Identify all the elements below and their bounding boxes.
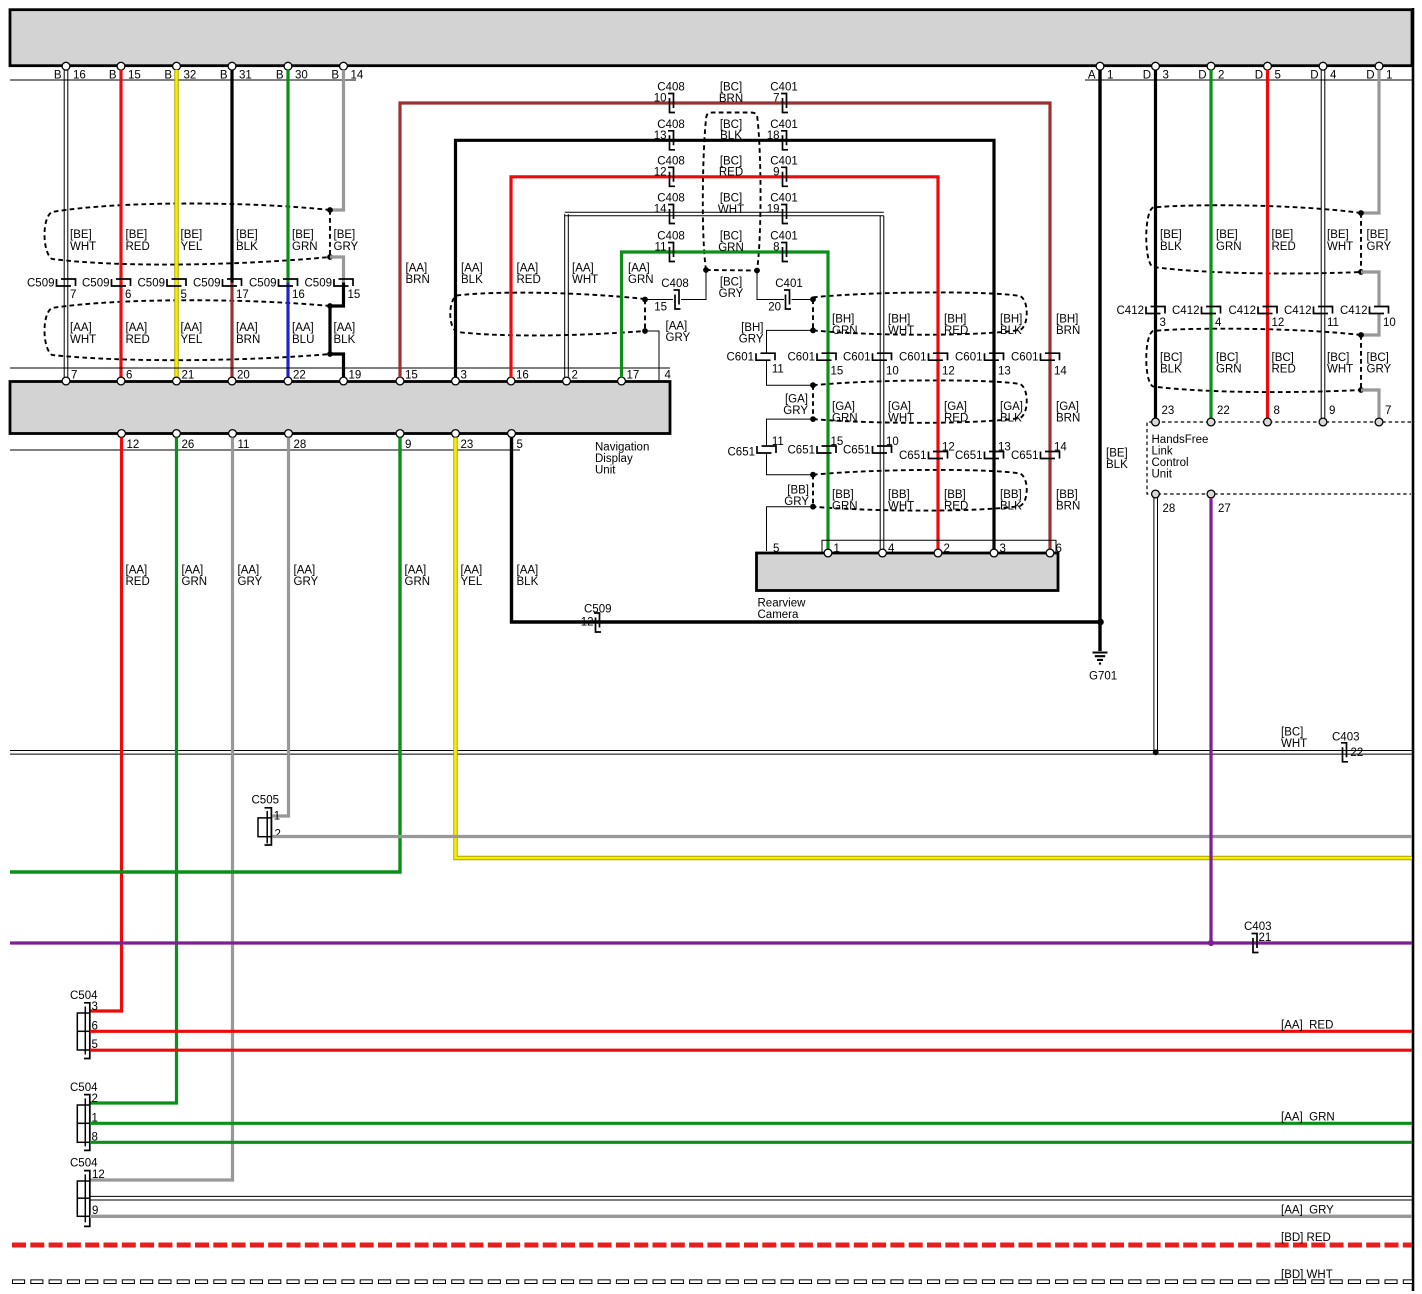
svg-text:2: 2 <box>275 828 281 840</box>
svg-text:WHT: WHT <box>888 325 914 337</box>
svg-text:[AA]: [AA] <box>126 322 148 334</box>
junction at G701 branch <box>1097 619 1104 626</box>
svg-text:[GA]: [GA] <box>832 401 855 413</box>
connector C401 pin 18 <box>781 131 788 150</box>
svg-text:20: 20 <box>237 369 250 381</box>
wire [AA] RED (C504 6 to right edge) <box>90 1030 1412 1033</box>
unit: HandsFree Link Control Unit (dashed) <box>1147 422 1411 494</box>
svg-text:[AA]: [AA] <box>236 322 258 334</box>
svg-text:5: 5 <box>1275 69 1281 81</box>
svg-text:[BD] RED: [BD] RED <box>1281 1232 1331 1244</box>
svg-text:YEL: YEL <box>181 334 203 346</box>
connector C401 pin 7 <box>781 94 788 113</box>
junction: right shield dot 1 <box>1358 210 1364 216</box>
wire [BD] WHT (hollow dashed run) <box>12 1279 1412 1284</box>
shield drain dashed (E-F) <box>812 475 814 507</box>
unit: head unit bar (top) <box>10 10 1412 66</box>
svg-text:3: 3 <box>1000 543 1006 555</box>
svg-text:BLK: BLK <box>461 274 483 286</box>
junction: right shield dot 3 <box>1358 332 1364 338</box>
svg-text:RED: RED <box>944 413 968 425</box>
svg-text:[AA]: [AA] <box>406 263 428 275</box>
svg-text:12: 12 <box>581 617 594 629</box>
wire [BE]/[AA] RED (B15 to NDU 6) <box>119 70 122 380</box>
svg-text:C651: C651 <box>843 445 871 457</box>
svg-text:GRY: GRY <box>334 241 359 253</box>
connector C601 pin 10 <box>873 353 892 360</box>
svg-text:12: 12 <box>942 365 955 377</box>
svg-text:[BC]: [BC] <box>720 276 742 288</box>
connector C408 pin 12 <box>668 167 675 186</box>
wire [AA]/[BC]/[BH] GRN (NDU 17 to camera 1) <box>622 252 829 549</box>
svg-text:C509: C509 <box>138 278 166 290</box>
connector strip A/D (right, under bar) <box>1085 79 1412 81</box>
svg-text:3: 3 <box>92 1001 98 1013</box>
wire shield drain (C401 20 to dot A) <box>792 299 814 301</box>
svg-text:C504: C504 <box>70 1158 98 1170</box>
wire [BC] GRY (C412 10 to shield dot 3) <box>1361 314 1379 336</box>
svg-text:19: 19 <box>349 369 362 381</box>
svg-text:BLK: BLK <box>517 576 539 588</box>
svg-text:B: B <box>331 69 339 81</box>
connector C651 pin 11 <box>757 446 776 453</box>
svg-text:GRN: GRN <box>832 413 858 425</box>
wire [AA]/[BE] BLK (NDU 5 to ground) <box>512 438 1101 623</box>
svg-text:C651: C651 <box>899 450 927 462</box>
svg-text:11: 11 <box>772 364 784 376</box>
shield drain dashed segment (left lower) <box>329 306 331 354</box>
svg-text:15: 15 <box>405 369 418 381</box>
svg-text:BRN: BRN <box>406 274 430 286</box>
junction on WHT run <box>1153 749 1159 755</box>
shield drain dashed (right upper) <box>1360 213 1362 272</box>
svg-text:31: 31 <box>239 69 252 81</box>
svg-text:Navigation: Navigation <box>595 442 649 454</box>
unit: Rearview Camera <box>757 553 1059 591</box>
svg-text:GRN: GRN <box>292 241 318 253</box>
svg-text:[BE]: [BE] <box>1160 229 1182 241</box>
svg-text:BRN: BRN <box>1056 500 1080 512</box>
wire [BC] WHT (horizontal run) <box>10 750 1412 752</box>
svg-text:13: 13 <box>998 365 1011 377</box>
shield oval [BH] group <box>813 292 1027 334</box>
shield capsule [BC] group (between C408 and C401) <box>703 113 761 271</box>
svg-text:17: 17 <box>627 369 640 381</box>
wire shield drain (capsule to C401 20) <box>757 271 784 300</box>
svg-text:20: 20 <box>768 302 781 314</box>
svg-text:13: 13 <box>998 441 1011 453</box>
junction dot D <box>810 416 816 422</box>
connector C408 pin 10 <box>668 94 675 113</box>
NDU bottom connector strip <box>10 449 520 451</box>
svg-text:WHT: WHT <box>888 413 914 425</box>
svg-text:[BE]: [BE] <box>181 229 203 241</box>
svg-text:BRN: BRN <box>719 93 743 105</box>
svg-text:15: 15 <box>654 302 667 314</box>
svg-text:6: 6 <box>125 289 131 301</box>
svg-text:B: B <box>276 69 284 81</box>
svg-text:[BH]: [BH] <box>1000 313 1022 325</box>
svg-text:GRN: GRN <box>1216 241 1242 253</box>
connector C401 pin 19 <box>781 205 788 224</box>
svg-text:12: 12 <box>1272 317 1285 329</box>
connector C403 pin 21 <box>1252 934 1259 953</box>
svg-text:GRY: GRY <box>783 405 808 417</box>
svg-text:C505: C505 <box>252 795 280 807</box>
svg-text:[BC]: [BC] <box>1281 727 1303 739</box>
svg-text:16: 16 <box>292 289 305 301</box>
connector C651 pin 15 <box>817 446 836 453</box>
svg-text:15: 15 <box>128 69 141 81</box>
svg-text:16: 16 <box>73 69 86 81</box>
svg-text:[AA]: [AA] <box>292 322 314 334</box>
wire shield drain (C601 11 to dot C) <box>767 360 814 385</box>
svg-text:[BH]: [BH] <box>832 313 854 325</box>
svg-text:[BB]: [BB] <box>888 489 910 501</box>
pins on head unit bar edge <box>62 62 70 70</box>
junction: shield drain top left <box>327 207 333 213</box>
unit: Navigation Display Unit <box>10 382 670 434</box>
svg-text:BLK: BLK <box>334 334 356 346</box>
connector C601 pin 14 <box>1041 353 1060 360</box>
svg-text:[BE]: [BE] <box>236 229 258 241</box>
svg-text:[BH]: [BH] <box>888 313 910 325</box>
svg-text:C601: C601 <box>1011 352 1039 364</box>
connector C601 pin 13 <box>985 353 1004 360</box>
svg-text:11: 11 <box>772 436 784 448</box>
svg-text:A: A <box>1088 69 1096 81</box>
svg-text:Link: Link <box>1152 446 1173 458</box>
svg-text:[BB]: [BB] <box>787 485 809 497</box>
shield oval [BC] group (right) <box>1146 329 1361 392</box>
svg-text:7: 7 <box>70 289 76 301</box>
svg-text:19: 19 <box>767 204 780 216</box>
svg-text:GRN: GRN <box>628 274 654 286</box>
svg-text:2: 2 <box>944 543 950 555</box>
svg-text:15: 15 <box>831 436 844 448</box>
wire [AA] GRN (C504 1 to right edge) <box>90 1122 1412 1125</box>
wire [AA]/[BC]/[BH] BLK (NDU 3 to camera 3) <box>456 140 995 549</box>
svg-text:C509: C509 <box>82 278 110 290</box>
svg-text:C651: C651 <box>955 450 983 462</box>
svg-text:C403: C403 <box>1332 732 1360 744</box>
svg-text:[BC]: [BC] <box>1272 352 1294 364</box>
svg-text:Unit: Unit <box>1152 469 1173 481</box>
wire [AA] GRY (C504 9 to right edge) <box>90 1215 1412 1218</box>
svg-text:Unit: Unit <box>595 465 616 477</box>
svg-text:9: 9 <box>1329 405 1335 417</box>
connector C601 pin 15 <box>817 353 836 360</box>
svg-text:C601: C601 <box>955 352 983 364</box>
shield oval [BB] group <box>813 470 1027 511</box>
svg-text:[BE]: [BE] <box>70 229 92 241</box>
svg-text:C401: C401 <box>775 278 803 290</box>
svg-text:GRY: GRY <box>739 334 764 346</box>
svg-text:Display: Display <box>595 453 633 465</box>
svg-text:RED: RED <box>944 500 968 512</box>
svg-text:C412: C412 <box>1284 305 1312 317</box>
connector C408 pin 11 <box>668 243 675 262</box>
svg-text:C601: C601 <box>843 352 871 364</box>
svg-text:10: 10 <box>886 436 899 448</box>
svg-text:WHT: WHT <box>70 334 96 346</box>
wire [AA] RED (C504 5 to right edge) <box>90 1049 1412 1052</box>
svg-text:2: 2 <box>572 369 578 381</box>
svg-text:WHT: WHT <box>1281 738 1307 750</box>
svg-text:[BE]: [BE] <box>292 229 314 241</box>
wire [BE] GRY (D1 to shield dot) <box>1361 70 1379 213</box>
svg-text:C509: C509 <box>249 278 277 290</box>
svg-text:1: 1 <box>1386 69 1392 81</box>
svg-text:10: 10 <box>886 365 899 377</box>
svg-text:GRY: GRY <box>1367 241 1392 253</box>
svg-text:3: 3 <box>1160 317 1166 329</box>
svg-text:B: B <box>109 69 117 81</box>
junction dot A (BH shield top) <box>810 296 816 302</box>
svg-text:B: B <box>54 69 62 81</box>
svg-text:RED: RED <box>126 576 150 588</box>
svg-text:RED: RED <box>517 274 541 286</box>
connector C651 pin 10 <box>873 446 892 453</box>
svg-text:[AA]: [AA] <box>628 263 650 275</box>
connector C601 pin 12 <box>929 353 948 360</box>
svg-text:GRY: GRY <box>1367 364 1392 376</box>
junction: shield drain left <box>327 254 333 260</box>
svg-text:[BB]: [BB] <box>1056 489 1078 501</box>
svg-text:12: 12 <box>654 166 667 178</box>
wire [BE]/[BC] BLK (D3 to HFL 23) <box>1154 70 1157 418</box>
wire [BE] BLK (A1 to ground) <box>1098 70 1101 651</box>
svg-text:C408: C408 <box>661 278 689 290</box>
svg-text:1: 1 <box>834 543 840 555</box>
svg-text:RED: RED <box>126 334 150 346</box>
wire [AA]/[BC]/[BH] RED (NDU 16 to camera 2) <box>511 177 938 549</box>
svg-text:D: D <box>1366 69 1374 81</box>
wire shield drain (dot to NDU 4) <box>645 331 659 380</box>
shield oval [BE] group (left) <box>45 203 331 264</box>
connector C509 pin 7 <box>57 279 76 286</box>
svg-text:5: 5 <box>517 439 523 451</box>
svg-text:12: 12 <box>92 1169 105 1181</box>
svg-text:9: 9 <box>773 166 779 178</box>
wire shield drain (D to C651 11) <box>767 419 814 446</box>
svg-text:[AA]: [AA] <box>461 565 483 577</box>
svg-text:15: 15 <box>348 289 361 301</box>
svg-text:BLK: BLK <box>1106 459 1128 471</box>
svg-text:[BE]: [BE] <box>1106 448 1128 460</box>
connector C412 pin 4 <box>1202 307 1221 314</box>
svg-text:G701: G701 <box>1089 671 1117 683</box>
svg-text:[AA]: [AA] <box>405 565 427 577</box>
ground G701 <box>1093 653 1108 664</box>
svg-text:BLK: BLK <box>236 241 258 253</box>
wire [AA] BLK shield drain (solid behind dashes) <box>328 306 331 354</box>
svg-text:7: 7 <box>1385 405 1391 417</box>
svg-text:B: B <box>164 69 172 81</box>
svg-text:C403: C403 <box>1244 921 1272 933</box>
junction: [AA] shield dot upper <box>642 297 648 303</box>
svg-text:[BC]: [BC] <box>1160 352 1182 364</box>
wire shield drain (B to C601 11) <box>767 330 814 353</box>
connector C601 pin 11 <box>756 353 775 360</box>
svg-text:[AA]: [AA] <box>182 565 204 577</box>
svg-text:GRY: GRY <box>238 576 263 588</box>
svg-text:RED: RED <box>944 325 968 337</box>
camera connector strip <box>822 540 1056 553</box>
svg-text:GRY: GRY <box>666 332 691 344</box>
wire [AA] GRY (C505 2 to right edge) <box>273 835 1413 838</box>
junction dot F <box>810 504 816 510</box>
svg-text:B: B <box>220 69 228 81</box>
svg-text:[BC]: [BC] <box>1216 352 1238 364</box>
connector C509 pin 5 <box>167 279 186 286</box>
svg-text:BLU: BLU <box>292 334 314 346</box>
svg-text:[AA]: [AA] <box>666 321 688 333</box>
connector C401 pin 8 <box>781 243 788 262</box>
svg-text:1: 1 <box>1107 69 1113 81</box>
connector C401 pin 20 <box>784 290 791 309</box>
svg-text:Rearview: Rearview <box>758 597 807 609</box>
svg-text:C412: C412 <box>1229 305 1257 317</box>
wire white (C504 to right edge) <box>90 1195 1412 1197</box>
wire [AA] GRY (NDU 28 to C505 1) <box>273 438 289 817</box>
connector C509 pin 6 <box>112 279 131 286</box>
svg-text:C509: C509 <box>305 278 333 290</box>
wire [AA] RED (NDU 12 to C504 3) <box>90 438 122 1012</box>
svg-text:[AA] GRY: [AA] GRY <box>1281 1204 1334 1216</box>
svg-text:GRN: GRN <box>1216 364 1242 376</box>
wire [BE]/[BC] WHT (D4 to HFL 9) <box>1320 70 1322 418</box>
junction: capsule right <box>754 268 760 274</box>
wire [AA]/[BC]/[BH] BRN (NDU 15 to camera 6) <box>400 103 1050 549</box>
svg-text:WHT: WHT <box>888 500 914 512</box>
svg-text:10: 10 <box>654 93 667 105</box>
svg-text:3: 3 <box>1163 69 1169 81</box>
svg-text:C651: C651 <box>728 446 756 458</box>
connector strip B (left, under bar) <box>10 79 356 81</box>
svg-text:GRN: GRN <box>405 576 431 588</box>
svg-text:GRY: GRY <box>294 576 319 588</box>
shield drain dashed (A-B) <box>812 299 814 330</box>
svg-text:Camera: Camera <box>758 609 800 621</box>
svg-text:[AA] GRN: [AA] GRN <box>1281 1111 1335 1123</box>
svg-text:14: 14 <box>1054 365 1067 377</box>
svg-text:14: 14 <box>351 69 364 81</box>
svg-text:[GA]: [GA] <box>1000 401 1023 413</box>
svg-text:WHT: WHT <box>1327 364 1353 376</box>
wire [AA] YEL (NDU 23 to right edge) <box>456 438 1413 859</box>
wire [BE] GRY (dot to C509 15) <box>330 257 344 283</box>
wire [AA] BRN (C509 17 to NDU 20) <box>230 283 233 380</box>
svg-text:BRN: BRN <box>1056 325 1080 337</box>
svg-text:[BC]: [BC] <box>1367 352 1389 364</box>
shield oval [AA] group (center, above NDU) <box>450 293 645 336</box>
svg-text:26: 26 <box>182 439 195 451</box>
wire [AA] GRN (C504 8 to right edge) <box>90 1141 1412 1144</box>
svg-text:[BH]: [BH] <box>741 322 763 334</box>
svg-text:8: 8 <box>1274 405 1280 417</box>
svg-text:[GA]: [GA] <box>888 401 911 413</box>
svg-text:C412: C412 <box>1117 305 1145 317</box>
svg-text:BRN: BRN <box>236 334 260 346</box>
svg-text:4: 4 <box>665 369 672 381</box>
svg-text:BRN: BRN <box>1056 413 1080 425</box>
wire shield drain (capsule to C408 15) <box>681 270 706 300</box>
connector C408 pin 13 <box>668 131 675 150</box>
connector C412 pin 3 <box>1146 307 1165 314</box>
svg-text:C651: C651 <box>1011 450 1039 462</box>
svg-text:5: 5 <box>773 543 779 555</box>
svg-text:[BH]: [BH] <box>1056 313 1078 325</box>
svg-text:6: 6 <box>1056 543 1062 555</box>
svg-text:[BB]: [BB] <box>1000 489 1022 501</box>
wire [BE]/[BC] RED (D5 to HFL 8) <box>1266 70 1269 418</box>
svg-text:BLK: BLK <box>1000 413 1022 425</box>
svg-text:C601: C601 <box>788 352 816 364</box>
svg-text:3: 3 <box>461 369 467 381</box>
wire [AA] GRY (NDU 11 to C504 12) <box>90 438 233 1181</box>
svg-text:[AA]: [AA] <box>181 322 203 334</box>
svg-text:BLK: BLK <box>1160 364 1182 376</box>
svg-text:8: 8 <box>773 242 779 254</box>
svg-text:BLK: BLK <box>1160 241 1182 253</box>
svg-text:Control: Control <box>1152 457 1189 469</box>
svg-text:21: 21 <box>1259 932 1272 944</box>
svg-text:12: 12 <box>942 441 955 453</box>
svg-text:4: 4 <box>1215 317 1222 329</box>
svg-text:GRY: GRY <box>719 288 744 300</box>
svg-text:[BE]: [BE] <box>334 229 356 241</box>
svg-text:28: 28 <box>1163 503 1176 515</box>
svg-text:23: 23 <box>461 439 474 451</box>
svg-text:27: 27 <box>1218 503 1231 515</box>
svg-text:22: 22 <box>293 369 306 381</box>
svg-text:BLK: BLK <box>1000 325 1022 337</box>
shield oval [GA] group <box>813 380 1027 422</box>
connector C651 pin 13 <box>985 452 1004 459</box>
svg-text:11: 11 <box>238 439 250 451</box>
wire [BE] BLK (B31 to C509 17) <box>230 70 233 283</box>
svg-text:[BE]: [BE] <box>1216 229 1238 241</box>
svg-text:32: 32 <box>184 69 197 81</box>
wire [BC] WHT (HFL 28 down) <box>1153 498 1155 752</box>
svg-text:15: 15 <box>831 365 844 377</box>
wire [AA] GRN (NDU 26 to C504 2) <box>90 438 177 1104</box>
svg-text:[GA]: [GA] <box>785 394 808 406</box>
svg-text:21: 21 <box>182 369 195 381</box>
svg-text:GRN: GRN <box>832 325 858 337</box>
svg-text:WHT: WHT <box>1327 241 1353 253</box>
svg-text:YEL: YEL <box>461 576 483 588</box>
connector C403 pin 22 <box>1341 743 1348 762</box>
svg-text:2: 2 <box>1218 69 1224 81</box>
svg-text:C412: C412 <box>1340 305 1368 317</box>
svg-text:D: D <box>1255 69 1263 81</box>
svg-text:17: 17 <box>236 289 249 301</box>
svg-text:23: 23 <box>1162 405 1175 417</box>
svg-text:[BE]: [BE] <box>1272 229 1294 241</box>
svg-text:[BH]: [BH] <box>944 313 966 325</box>
svg-text:WHT: WHT <box>718 204 744 216</box>
svg-text:C412: C412 <box>1172 305 1200 317</box>
svg-text:9: 9 <box>405 439 411 451</box>
svg-text:6: 6 <box>126 369 132 381</box>
svg-text:[BC]: [BC] <box>1327 352 1349 364</box>
wire [BE] GRN (B30 to C509 16) <box>286 70 289 283</box>
wire [AA] BLK (C509 15 to shield dot) <box>330 283 344 307</box>
svg-text:C651: C651 <box>788 445 816 457</box>
NDU top connector strip <box>10 367 670 369</box>
